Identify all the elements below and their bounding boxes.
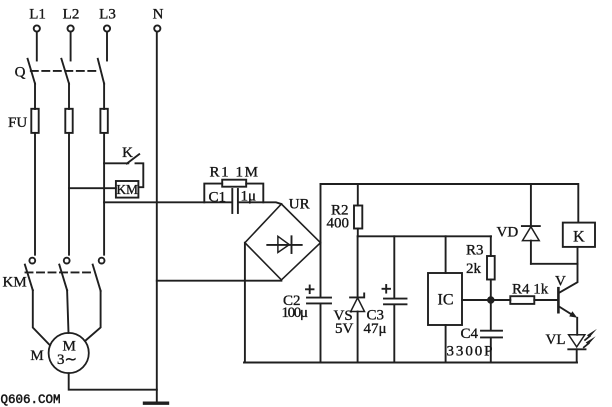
wire VL to bottom rail — [576, 349, 578, 362]
wire K box to junction — [577, 247, 579, 264]
C2 polarity plus — [306, 288, 314, 290]
wire motor to N — [69, 373, 157, 390]
terminal L2 — [68, 25, 74, 31]
wire fuse1 to KM contact 1 — [34, 133, 36, 255]
contactor KM contact 2 blade — [59, 265, 67, 291]
resistor R1 body — [222, 180, 246, 187]
capacitor C1 — [231, 189, 233, 213]
wire fuse3 to KM contact 3 — [103, 133, 105, 255]
wire L3 to C1 R1 — [104, 201, 232, 203]
wire emitter to VL — [576, 318, 578, 335]
bridge rectifier UR — [245, 204, 321, 280]
resistor R2 top leg — [357, 184, 359, 206]
LED VL emission arrow 1 — [587, 329, 597, 338]
wire C3 to bottom rail — [393, 305, 395, 363]
resistor R3 body — [487, 256, 495, 280]
terminal N — [154, 25, 160, 31]
svg-text:47μ: 47μ — [364, 321, 387, 337]
contactor KM contact 3 terminal — [99, 258, 105, 264]
wire R3 to node — [490, 280, 492, 301]
contactor KM contact 1 terminal — [29, 258, 35, 264]
svg-text:IC: IC — [438, 292, 454, 309]
svg-text:100μ: 100μ — [282, 305, 309, 321]
wire KM1 to motor — [33, 290, 50, 345]
svg-text:R4 1k: R4 1k — [512, 282, 549, 298]
svg-text:3∼: 3∼ — [57, 352, 77, 368]
fuse FU2 — [65, 109, 72, 133]
zener VS bar — [350, 293, 364, 297]
wire fuse2 to KM contact 2 — [68, 133, 70, 255]
IC box — [428, 273, 462, 325]
svg-text:FU: FU — [8, 115, 27, 131]
switch Q dashed link — [31, 70, 100, 72]
wire C1 to bridge — [238, 202, 281, 204]
svg-text:L3: L3 — [99, 7, 116, 23]
svg-text:L2: L2 — [63, 7, 80, 23]
wire C2 to bottom rail — [320, 304, 322, 363]
LED VL emission arrow 2 — [586, 336, 596, 345]
wire L1 drop — [36, 32, 38, 61]
svg-text:3300P: 3300P — [447, 343, 493, 359]
top rail — [321, 184, 579, 223]
bridge inner diode lead — [267, 244, 301, 246]
wire Q1 to fuse 1 — [34, 84, 36, 109]
wire Q2 to fuse 2 — [68, 84, 70, 109]
capacitor C2 plates — [307, 297, 331, 299]
wire L2 to KM coil — [69, 187, 116, 189]
svg-text:V: V — [555, 274, 566, 290]
svg-text:C4: C4 — [461, 326, 479, 342]
LED VL cathode bar — [568, 348, 585, 350]
wire R4 to base — [534, 299, 557, 301]
svg-text:N: N — [153, 7, 164, 23]
switch Q pole 3 blade — [98, 59, 104, 84]
relay coil K box — [563, 223, 595, 247]
IC bottom pin — [445, 325, 447, 363]
svg-text:K: K — [122, 145, 133, 161]
svg-text:R3: R3 — [466, 243, 484, 259]
contactor KM contact 2 terminal — [64, 258, 70, 264]
wire C4 to bottom rail — [490, 338, 492, 363]
svg-text:C1: C1 — [209, 189, 227, 205]
switch Q pole 2 blade — [61, 59, 69, 84]
wire DC+ to C2 — [320, 243, 322, 298]
transistor V collector — [559, 264, 578, 293]
svg-text:Q606.COM: Q606.COM — [1, 393, 61, 407]
wire Q3 to fuse 3 — [103, 84, 105, 109]
resistor R3 top leg — [490, 236, 492, 256]
motor M circle — [49, 333, 89, 373]
relay contact K fixed side — [136, 163, 144, 187]
wire L3 drop — [106, 32, 108, 61]
svg-text:UR: UR — [289, 197, 310, 213]
resistor R1 left leg — [204, 184, 222, 203]
svg-text:2k: 2k — [466, 261, 482, 277]
capacitor C3 plates — [384, 298, 407, 300]
transistor V emitter — [559, 307, 572, 315]
wire node to C4 — [490, 300, 492, 331]
wire KM2 to motor — [67, 290, 68, 333]
zener VS bottom leg — [357, 312, 359, 363]
resistor R1 right leg — [246, 184, 263, 203]
transistor V emitter arrowhead — [569, 311, 577, 318]
svg-text:5V: 5V — [335, 321, 354, 337]
bridge inner diode bar — [291, 236, 293, 253]
zener VS triangle — [351, 298, 365, 312]
IC top pin — [445, 236, 447, 273]
diode VD top leg — [530, 184, 532, 226]
resistor R2 bottom leg — [357, 229, 359, 237]
KM contacts dashed link — [26, 271, 95, 273]
C3 polarity plus — [383, 288, 391, 290]
diode VD triangle — [523, 227, 540, 241]
node junction — [488, 297, 494, 303]
IC output wire — [462, 299, 488, 301]
relay contact K blade — [127, 154, 139, 163]
transistor V base bar — [557, 288, 560, 312]
svg-text:KM: KM — [116, 182, 138, 197]
svg-text:L1: L1 — [29, 7, 46, 23]
terminal L3 — [104, 25, 110, 31]
svg-text:M: M — [30, 348, 43, 364]
fuse FU3 — [100, 109, 107, 133]
fuse FU1 — [31, 109, 38, 133]
resistor R2 body — [354, 206, 362, 229]
wire VD K junction — [531, 263, 578, 265]
svg-text:KM: KM — [3, 275, 27, 291]
wire L3 to K contact — [104, 162, 128, 164]
contactor KM contact 1 blade — [25, 265, 33, 291]
bridge inner diode triangle — [278, 236, 289, 252]
wire bridge DC- drop — [244, 243, 246, 363]
contactor coil KM box — [116, 181, 138, 198]
wire KM3 to motor — [85, 291, 101, 341]
wire node to R4 — [491, 299, 511, 301]
svg-text:R1 1M: R1 1M — [210, 165, 259, 181]
svg-text:VD: VD — [497, 224, 519, 240]
5V rail — [358, 235, 491, 237]
svg-text:Q: Q — [15, 65, 26, 81]
capacitor C3 top leg — [393, 236, 395, 298]
switch Q pole 1 blade — [28, 59, 35, 84]
wire VD down — [530, 241, 532, 264]
wire L2 drop — [70, 32, 72, 61]
svg-text:1μ: 1μ — [241, 189, 257, 205]
contactor KM contact 3 blade — [93, 265, 101, 291]
wire bridge DC+ riser — [320, 184, 322, 243]
zener VS top leg — [357, 236, 359, 297]
diode VD bar — [522, 225, 540, 227]
resistor R4 body — [510, 296, 534, 304]
terminal L1 — [34, 25, 40, 31]
svg-text:K: K — [573, 229, 585, 246]
capacitor C4 plates — [481, 330, 502, 332]
wire N to bridge AC2 — [157, 280, 282, 282]
svg-text:400: 400 — [327, 216, 350, 232]
wire N column — [156, 32, 158, 403]
ground — [145, 402, 168, 405]
LED VL triangle — [569, 335, 585, 347]
svg-text:VL: VL — [546, 332, 566, 348]
bottom rail — [244, 362, 577, 364]
